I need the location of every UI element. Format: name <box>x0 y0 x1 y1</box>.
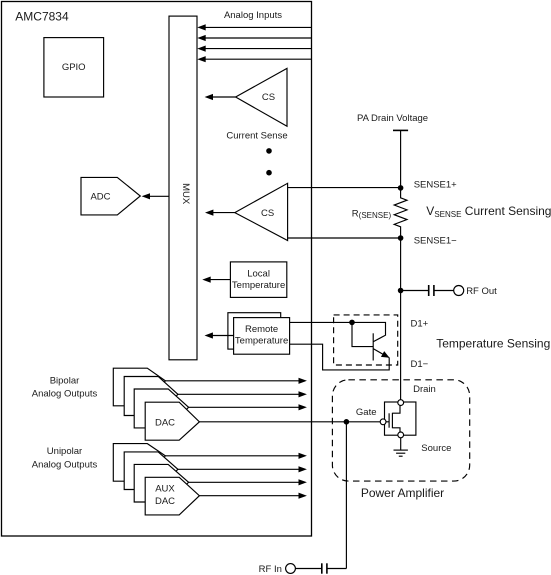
AMC7834 device outer box <box>2 2 312 537</box>
op-amp CS2 current-sense amplifier <box>235 183 288 240</box>
wire source to ground <box>400 438 402 450</box>
svg-text:RF In: RF In <box>259 564 282 575</box>
wire CS2 output to MUX <box>205 210 235 216</box>
wire AUX DAC output 4 <box>199 493 307 499</box>
svg-text:Bipolar: Bipolar <box>50 375 80 386</box>
svg-text:Gate: Gate <box>356 407 377 418</box>
svg-text:R(SENSE): R(SENSE) <box>352 208 392 220</box>
svg-text:GPIO: GPIO <box>62 62 86 73</box>
port RF In <box>259 564 322 575</box>
capacitor C2 RF In DC block <box>322 563 347 573</box>
wire analog input 4 <box>197 56 311 62</box>
transistor Q1 thermal diode (base bar) <box>372 333 374 360</box>
wire analog input 2 <box>197 35 311 41</box>
wire RF Out node to MOSFET drain <box>400 291 402 400</box>
svg-text:Drain: Drain <box>413 384 436 395</box>
label Unipolar Analog Outputs <box>32 446 98 470</box>
svg-text:Local: Local <box>247 268 270 279</box>
ellipsis dot 1 <box>266 148 272 154</box>
svg-text:Unipolar: Unipolar <box>47 446 82 457</box>
wire Remote Temperature to MUX <box>205 332 234 338</box>
svg-text:DAC: DAC <box>155 496 175 507</box>
svg-text:PA Drain Voltage: PA Drain Voltage <box>357 113 428 124</box>
svg-text:SENSE1+: SENSE1+ <box>414 179 457 190</box>
DAC block front <box>145 402 199 440</box>
DAC block stack shape 3 <box>134 389 188 428</box>
svg-text:Power Amplifier: Power Amplifier <box>361 486 444 500</box>
svg-text:D1+: D1+ <box>411 318 429 329</box>
AUX DAC block stack shape 2 <box>124 452 178 490</box>
wire base connection from junction <box>352 322 373 346</box>
ground <box>394 450 408 456</box>
wire SENSE1- to RF Out node <box>400 238 402 291</box>
svg-text:AUX: AUX <box>155 484 175 495</box>
wire DAC output 2 <box>178 391 307 397</box>
dashed box temperature sensing diode <box>334 315 398 365</box>
power supply PA Drain Voltage <box>357 113 428 130</box>
wire AUX DAC output 1 <box>165 453 307 459</box>
wire DAC output 1 <box>165 378 307 384</box>
svg-text:Source: Source <box>421 443 451 454</box>
svg-text:AMC7834: AMC7834 <box>15 10 69 24</box>
AUX DAC block stack shape 3 <box>134 464 188 502</box>
wire AUX DAC output 2 <box>178 466 307 472</box>
AUX DAC block stack shape 1 <box>113 444 165 482</box>
Local Temperature sensor block <box>230 262 286 298</box>
transistor M1 power MOSFET body <box>385 402 416 435</box>
svg-text:Temperature Sensing: Temperature Sensing <box>436 337 550 351</box>
wire AUX DAC output 3 <box>189 479 307 485</box>
svg-text:Remote: Remote <box>245 324 278 335</box>
GPIO block <box>44 38 104 97</box>
ADC block <box>81 177 140 215</box>
wire DAC output 3 <box>189 404 307 410</box>
transistor Q1 emitter with arrow <box>373 349 389 358</box>
svg-text:SENSE1−: SENSE1− <box>414 236 457 247</box>
wire MUX to ADC <box>142 193 170 199</box>
node junction on D1+ rail <box>349 320 355 326</box>
svg-text:MUX: MUX <box>180 183 191 205</box>
DAC block stack shape 2 <box>124 377 178 416</box>
wire emitter return to Remote Temperature <box>290 344 390 370</box>
wire gate junction to RF In <box>345 422 347 569</box>
node SENSE1- <box>398 235 404 241</box>
svg-text:VSENSE Current Sensing: VSENSE Current Sensing <box>426 204 551 219</box>
node SENSE1+ <box>398 185 404 191</box>
svg-text:Current Sense: Current Sense <box>226 130 287 141</box>
resistor R(SENSE) <box>394 188 407 238</box>
port RF Out <box>454 286 497 298</box>
op-amp CS1 current-sense amplifier <box>236 68 287 126</box>
svg-text:DAC: DAC <box>155 417 175 428</box>
svg-text:Analog Outputs: Analog Outputs <box>32 460 98 471</box>
pin Drain circle <box>398 400 404 406</box>
wire SENSE1- to CS2 input <box>288 237 401 239</box>
wire supply to SENSE1+ <box>400 130 402 188</box>
MUX U1 <box>169 16 197 360</box>
svg-text:Analog Outputs: Analog Outputs <box>32 389 98 400</box>
wire CS1 output to MUX <box>205 94 236 100</box>
wire node to capacitor <box>401 290 429 292</box>
wire Remote Temperature D1+ rail to transistor collector <box>290 322 386 341</box>
svg-text:Temperature: Temperature <box>235 335 288 346</box>
AUX DAC block front <box>145 477 199 515</box>
DAC block stack shape 1 <box>113 368 165 406</box>
svg-text:CS: CS <box>262 92 275 103</box>
label Bipolar Analog Outputs <box>32 375 98 399</box>
svg-text:ADC: ADC <box>90 191 110 202</box>
pin Gate circle <box>380 419 386 425</box>
wire SENSE1+ to CS2 input <box>288 187 401 189</box>
svg-text:RF Out: RF Out <box>466 286 497 297</box>
svg-text:D1−: D1− <box>411 359 429 370</box>
svg-text:Temperature: Temperature <box>232 280 285 291</box>
svg-text:Analog Inputs: Analog Inputs <box>224 10 282 21</box>
Remote Temperature sensor block (stacked pair) <box>228 313 290 355</box>
pin Source circle <box>398 432 404 438</box>
node gate junction <box>344 419 350 425</box>
dashed box Power Amplifier <box>332 380 469 481</box>
capacitor C1 RF Out DC block <box>429 285 454 296</box>
ellipsis dot 2 <box>266 170 272 176</box>
wire Local Temperature to MUX <box>202 277 230 283</box>
wire analog input 3 <box>197 46 311 52</box>
node RF Out junction <box>398 288 404 294</box>
svg-text:CS: CS <box>261 208 274 219</box>
wire analog input 1 <box>197 24 311 30</box>
wire DAC output 4 to MOSFET gate <box>199 421 380 423</box>
